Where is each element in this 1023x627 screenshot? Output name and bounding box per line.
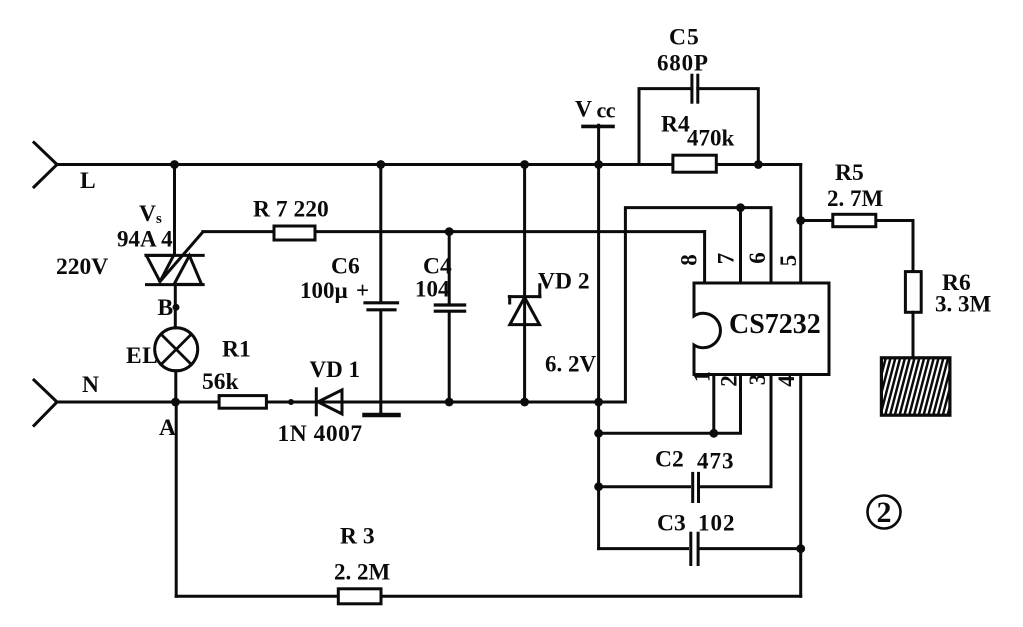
svg-text:EL: EL (126, 343, 158, 369)
svg-text:1: 1 (690, 371, 715, 383)
svg-text:2: 2 (877, 496, 892, 529)
svg-text:1N 4007: 1N 4007 (278, 421, 363, 447)
resistor R5 (833, 214, 876, 226)
N input arrow (34, 380, 57, 426)
junction C3 pin4 (796, 544, 805, 553)
node B (173, 304, 180, 311)
svg-text:680P: 680P (657, 51, 709, 76)
svg-text:+: + (356, 278, 369, 303)
svg-text:R5: R5 (835, 160, 864, 186)
wire bottom rail to pins 6 7 (599, 208, 771, 402)
svg-text:470k: 470k (687, 126, 735, 151)
lamp EL (155, 328, 198, 371)
svg-text:B: B (158, 295, 174, 321)
resistor R3 (338, 589, 381, 604)
svg-text:VD 1: VD 1 (310, 357, 360, 382)
node A (171, 398, 180, 407)
capacitor C4 (435, 232, 464, 407)
svg-text:C2: C2 (655, 447, 684, 473)
svg-text:L: L (80, 168, 96, 194)
svg-text:7: 7 (714, 253, 739, 265)
junction R5 (796, 216, 805, 225)
svg-text:R4: R4 (661, 112, 690, 138)
svg-text:3. 3M: 3. 3M (935, 292, 992, 317)
svg-text:8: 8 (677, 254, 702, 266)
wire R3 bottom (176, 595, 801, 598)
capacitor C2 (599, 375, 771, 502)
junction C4 on gate wire (445, 227, 454, 236)
IC U1 CS7232 (694, 283, 829, 375)
svg-text:5: 5 (776, 255, 801, 267)
Vcc symbol (583, 125, 613, 129)
resistor R6 (905, 272, 921, 313)
wire pin 1 (712, 375, 715, 434)
wire pin 8 drop (703, 232, 706, 283)
svg-text:3: 3 (745, 374, 770, 386)
wire L rail (56, 163, 801, 166)
resistor R1 (219, 396, 266, 409)
wire pin 7 (739, 208, 742, 283)
wire pin 2 (599, 375, 741, 434)
svg-text:R1: R1 (222, 337, 251, 363)
svg-text:220V: 220V (56, 254, 108, 280)
svg-text:102: 102 (698, 511, 736, 536)
svg-text:2: 2 (717, 375, 742, 387)
svg-text:104: 104 (415, 277, 450, 302)
triac Vs 94A4 (146, 232, 203, 285)
junction pin7 (736, 203, 745, 212)
node L junction (170, 160, 179, 169)
touch plate (866, 358, 963, 415)
wire triac to lamp (174, 285, 177, 328)
svg-text:473: 473 (697, 449, 735, 474)
svg-text:Vs: Vs (139, 201, 162, 227)
svg-text:100µ: 100µ (300, 278, 348, 303)
svg-text:CS7232: CS7232 (729, 309, 821, 340)
capacitor C3 (599, 533, 801, 564)
svg-text:R 7 220: R 7 220 (253, 197, 329, 223)
wire A down (175, 402, 178, 596)
svg-text:2. 2M: 2. 2M (334, 560, 391, 585)
wire L to triac (173, 165, 176, 256)
wire Vcc column (597, 125, 600, 548)
svg-text:56k: 56k (202, 369, 240, 395)
svg-text:VD 2: VD 2 (538, 269, 590, 295)
svg-text:N: N (82, 372, 99, 398)
svg-text:C6: C6 (331, 254, 360, 280)
wire lamp to A (174, 371, 177, 402)
svg-text:6: 6 (745, 252, 770, 264)
svg-text:2. 7M: 2. 7M (827, 186, 884, 211)
svg-text:C5: C5 (669, 25, 700, 51)
wire triac gate to pin 8 (203, 230, 705, 233)
svg-text:6. 2V: 6. 2V (545, 352, 597, 377)
wire R6 to plate (912, 312, 915, 358)
svg-text:cc: cc (597, 98, 616, 123)
svg-text:V: V (575, 97, 592, 123)
zener diode VD2 (509, 160, 540, 406)
resistor R7 (274, 226, 315, 240)
capacitor C6 (365, 160, 398, 402)
svg-text:A: A (159, 415, 176, 441)
svg-text:R 3: R 3 (340, 524, 375, 550)
wire pin 4 column (799, 375, 802, 597)
figure number 2 (868, 496, 901, 530)
svg-text:C3: C3 (657, 511, 686, 537)
svg-text:4: 4 (774, 375, 799, 387)
diode VD1 (316, 389, 342, 415)
ground (365, 402, 399, 415)
wire N rail (56, 401, 599, 404)
resistor R4 (673, 155, 716, 172)
L input arrow (34, 143, 57, 188)
wire pin 5 column (799, 165, 802, 284)
capacitor C5 loop (639, 75, 763, 169)
wire R5 (801, 221, 913, 272)
svg-text:94A 4: 94A 4 (117, 227, 173, 252)
junction R1 VD1 (288, 399, 294, 405)
